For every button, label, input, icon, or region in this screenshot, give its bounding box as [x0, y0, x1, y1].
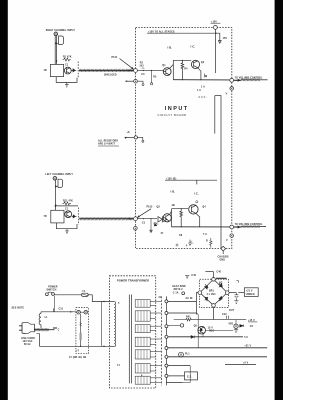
svg-text:R41: R41 [186, 316, 191, 319]
filter cap C5 [235, 295, 239, 297]
connector pin 5 [165, 347, 168, 350]
svg-text:BC: BC [219, 282, 223, 284]
svg-text:BR1: BR1 [209, 291, 215, 293]
svg-text:SHIELDED: SHIELDED [104, 74, 117, 76]
node output ch2 [230, 225, 234, 229]
ground mid board [188, 240, 192, 246]
wire from jack down [54, 180, 56, 210]
diode CR5 [240, 325, 243, 327]
bias line over box [55, 205, 78, 207]
connector pin 2 [165, 312, 168, 315]
diode on rail [191, 335, 194, 338]
svg-text:INPUT: INPUT [165, 106, 189, 112]
bottom line [166, 381, 182, 383]
secondary winding S2 [135, 311, 150, 321]
node feedthrough C [134, 79, 138, 83]
secondary winding S5 [135, 350, 150, 359]
ground return under box [56, 77, 77, 83]
input circuit board dashed box [136, 27, 232, 248]
note arrow into node 2 [137, 209, 151, 218]
vertical line pair mid board [215, 33, 217, 73]
svg-text:C3: C3 [141, 74, 145, 76]
svg-text:Q5: Q5 [194, 325, 198, 327]
zener VR1 [235, 320, 237, 325]
svg-text:1R: 1R [44, 70, 47, 72]
bridge top feed [213, 272, 215, 278]
svg-text:POWER: POWER [48, 287, 58, 289]
transformer core [128, 295, 130, 384]
transistor Q2 [191, 60, 199, 68]
below node pad 2 [134, 227, 138, 231]
ground return under box 2 [56, 223, 77, 229]
connector pin 6 [165, 355, 168, 358]
output line ch2 [172, 226, 230, 228]
thermal breaker dashed box [76, 308, 89, 354]
svg-text:C3: C3 [142, 223, 146, 225]
input box (shield) 2 [51, 210, 64, 223]
pin below ch2 [230, 234, 234, 238]
connector pin 4 [165, 335, 168, 338]
secondary winding S7 [135, 376, 150, 384]
thermistor RT2 [84, 310, 88, 314]
line cord [34, 328, 49, 331]
diode D3 [205, 297, 208, 301]
note arrow into node [120, 59, 134, 70]
bridge right output [229, 292, 236, 294]
cap C42 [226, 316, 228, 319]
main +15 rail [168, 336, 243, 338]
page edge black bar right [275, 0, 283, 400]
+15V output label [248, 321, 257, 323]
svg-text:7 A: 7 A [203, 233, 207, 236]
diode D1 [205, 284, 208, 289]
AC feed from connector to bridge [168, 300, 197, 302]
output line ch1 [173, 79, 230, 81]
svg-text:OUT: OUT [229, 310, 235, 312]
transistor Q2a [65, 211, 72, 218]
shield dashed boundary 2 [77, 208, 79, 225]
wire pin2 to bridge [168, 312, 197, 314]
svg-text:RIGHT CHANNEL INPUT: RIGHT CHANNEL INPUT [46, 29, 76, 32]
svg-text:7R: 7R [44, 216, 47, 218]
svg-text:Q2: Q2 [201, 62, 205, 64]
resistor R14 vertical [180, 209, 183, 218]
svg-text:+5 V: +5 V [243, 363, 249, 365]
svg-text:4 x 1N4: 4 x 1N4 [207, 293, 217, 296]
bridge corner terminals [212, 278, 216, 282]
connector pin 1 [165, 300, 168, 303]
small glyph left of ground [176, 244, 179, 247]
Q5 emitter wire right [206, 330, 234, 332]
svg-text:TO VOLUME CONTROL: TO VOLUME CONTROL [235, 78, 263, 80]
node feedthrough D [134, 136, 137, 139]
breaker element [80, 314, 82, 346]
Q3 collector to top line 2 [170, 211, 172, 214]
svg-text:AC IN: AC IN [186, 297, 193, 300]
svg-text:C31: C31 [59, 308, 64, 310]
svg-text:POWER TRANSFORMER: POWER TRANSFORMER [117, 278, 149, 282]
connector pin 8 [165, 374, 168, 377]
secondary winding S6 [135, 364, 150, 373]
svg-text:UNREG: UNREG [246, 294, 255, 296]
secondary winding S4 [135, 337, 150, 346]
bridge left leg down [196, 293, 198, 315]
svg-text:C40: C40 [191, 274, 196, 277]
svg-text:+15 V: +15 V [248, 320, 255, 322]
hook to pad at node C [137, 81, 143, 83]
choke coil L1 [40, 312, 42, 314]
diode CR3 pair [158, 217, 167, 222]
svg-text:GND: GND [220, 259, 226, 261]
diamond on bottom edge [221, 246, 226, 251]
junction down [196, 313, 198, 337]
shielded cable to board [79, 69, 133, 72]
svg-text:CIRCUIT BOARD: CIRCUIT BOARD [158, 113, 187, 117]
svg-text:HEAT SINK: HEAT SINK [172, 285, 186, 288]
svg-text:E.S.: E.S. [187, 374, 192, 378]
transistor Q1a [64, 67, 71, 74]
connector pin 3 [165, 325, 168, 328]
resistor R11 cluster above box [63, 202, 71, 205]
svg-text:LEFT CHANNEL INPUT: LEFT CHANNEL INPUT [45, 173, 73, 176]
transistor Q3 [163, 214, 171, 222]
svg-text:SEE NOTE: SEE NOTE [12, 307, 25, 309]
svg-text:C: C [58, 330, 60, 332]
diode D2 [219, 283, 222, 287]
svg-text:P101: P101 [112, 57, 119, 59]
svg-text:LINE CORD: LINE CORD [21, 338, 35, 340]
svg-text:R2: R2 [140, 62, 144, 64]
Q4 emitter to output line 2 [196, 214, 200, 227]
svg-text:PL1: PL1 [185, 353, 190, 355]
drop C4 [143, 70, 144, 71]
jack J1 [54, 32, 58, 36]
secondary winding S1 [135, 300, 150, 308]
E.S. boxed label [168, 375, 185, 377]
pilot lamp rail [168, 356, 267, 358]
svg-text:ARE 1/4 WATT: ARE 1/4 WATT [98, 143, 116, 146]
svg-text:C40: C40 [216, 270, 221, 273]
svg-text:120 VAC: 120 VAC [23, 340, 33, 343]
svg-text:P102: P102 [147, 207, 154, 209]
connector column lines [160, 296, 162, 385]
connector pin 7 [165, 364, 168, 367]
drop R5 with pad [151, 70, 152, 71]
transistor Q1 [163, 68, 171, 76]
pilot lamp PL1 [179, 352, 184, 357]
svg-text:4B: 4B [172, 204, 175, 207]
drop arrow 2 [150, 218, 151, 219]
svg-text:R11 47K: R11 47K [63, 199, 73, 202]
ground symbol left of bridge [185, 276, 189, 279]
svg-text:R4: R4 [184, 67, 188, 70]
svg-text:+15V TO ALL STAGES: +15V TO ALL STAGES [148, 30, 175, 33]
corner mark right of bridge [236, 281, 238, 283]
svg-text:103: 103 [139, 65, 144, 67]
svg-text:I B.: I B. [171, 189, 176, 193]
switch drop wire [54, 296, 56, 312]
svg-text:Q4: Q4 [202, 206, 206, 209]
node feedthrough circle 2 [134, 217, 138, 221]
return wire to primary bottom [40, 334, 110, 347]
bridge bottom leg [213, 307, 215, 319]
svg-text:SWITCH: SWITCH [47, 290, 57, 292]
wire node to Q1 [137, 69, 163, 71]
page edge black bar left [0, 0, 8, 400]
svg-text:Q1: Q1 [162, 65, 166, 67]
5V rail [168, 365, 190, 367]
svg-text:60 Hz: 60 Hz [24, 344, 31, 346]
svg-text:+21 V: +21 V [244, 346, 251, 348]
wire to transformer primary top [92, 295, 109, 302]
lower line rail [41, 311, 76, 313]
resistor R4 vertical [181, 60, 184, 70]
Q2 emitter to output line [198, 68, 201, 80]
wire with resistor R41 [174, 319, 186, 321]
connector pin P1 top [214, 26, 218, 30]
Q1 collector to top line [170, 65, 174, 69]
resistor R1 cluster above box [63, 58, 71, 61]
+21V unreg boxed label [238, 292, 244, 294]
transistor Q4 [189, 205, 198, 214]
pin below ch1 [230, 87, 234, 91]
bridge diamond [200, 279, 228, 305]
svg-text:5 C: 5 C [244, 337, 248, 339]
svg-text:I C.: I C. [191, 44, 196, 48]
arrow to off page [216, 33, 220, 40]
diode CR2 [72, 215, 77, 218]
svg-text:15 V: 15 V [208, 327, 214, 329]
transformer T1 dashed box [109, 276, 155, 388]
svg-text:VR1: VR1 [229, 323, 234, 325]
svg-text:1 A: 1 A [201, 86, 205, 89]
resistor to bottom edge [210, 238, 212, 248]
pin3 terminal circle [168, 324, 180, 326]
shielded cable to board 2 [79, 217, 133, 220]
svg-text:4T: 4T [161, 232, 164, 235]
svg-text:4T (OR 4C) 4B: 4T (OR 4C) 4B [69, 356, 86, 359]
bridge BR1 dashed box [200, 279, 229, 307]
svg-text:15V: 15V [223, 38, 228, 40]
svg-text:CHASSIS: CHASSIS [218, 256, 230, 259]
svg-text:C5: C5 [250, 326, 254, 328]
switch SW1 [46, 293, 49, 296]
node feedthrough circle [134, 69, 138, 73]
primary feeds vertical link [101, 302, 103, 347]
svg-text:C 1A: C 1A [173, 291, 179, 294]
diode D4 [219, 296, 223, 301]
svg-text:C42: C42 [222, 313, 227, 316]
svg-text:R: R [206, 241, 208, 243]
junction cap [53, 327, 57, 328]
svg-text:I B.: I B. [168, 46, 173, 50]
svg-text:1 A: 1 A [197, 89, 201, 92]
wire node2 to Q3 [137, 218, 157, 220]
node output ch1 [230, 78, 234, 82]
jack J2 [53, 177, 57, 181]
rail 21V raw [168, 347, 267, 349]
input box (shield) [50, 64, 63, 76]
svg-text:TO VOLUME CONTROL: TO VOLUME CONTROL [235, 224, 263, 226]
shield dashed boundary [77, 62, 79, 79]
svg-text:NOTE 2: NOTE 2 [174, 289, 184, 291]
svg-text:Q3: Q3 [157, 206, 161, 208]
AC plug [19, 326, 22, 330]
svg-text:REG: REG [209, 331, 214, 333]
thermistor RT1 [77, 310, 81, 314]
svg-text:R1 47K: R1 47K [63, 56, 72, 59]
shielded pair from jack [54, 36, 56, 65]
svg-text:+21 V: +21 V [246, 290, 253, 292]
diode CR1 [72, 69, 77, 72]
svg-text:ALL RESISTORS: ALL RESISTORS [98, 139, 118, 142]
svg-text:I C.: I C. [194, 191, 199, 195]
transistor Q5 regulator [198, 326, 206, 334]
secondary winding S3 [135, 325, 150, 333]
primary winding [109, 301, 114, 303]
